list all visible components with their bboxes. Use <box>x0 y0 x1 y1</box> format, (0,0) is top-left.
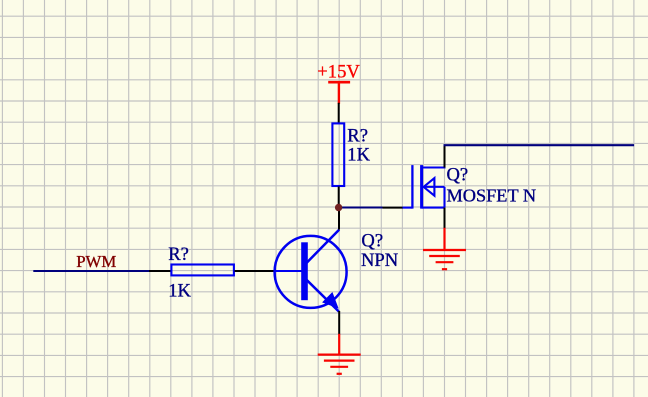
ground GND2 <box>423 228 466 269</box>
wire PWM input <box>33 270 149 272</box>
transistor Q1 body circle <box>275 236 347 308</box>
mosfet Q2 drain stub <box>422 166 446 168</box>
mosfet Q2 source stub <box>422 207 445 209</box>
mosfet Q2 bulk stub <box>423 186 445 188</box>
mosfet Q2 gate pin <box>383 207 404 209</box>
resistor R2 pin 1 <box>149 270 171 272</box>
mosfet Q2 channel bar <box>420 165 423 209</box>
svg-text:Q?: Q? <box>447 165 469 186</box>
resistor R2 body <box>171 265 234 276</box>
resistor R2 pin 2 <box>235 270 278 272</box>
power port +15V bar <box>328 81 350 84</box>
svg-text:MOSFET N: MOSFET N <box>447 185 537 205</box>
mosfet Q2 source pin <box>444 208 446 229</box>
svg-text:R?: R? <box>347 126 368 147</box>
resistor R1 pin 1 <box>338 103 340 123</box>
mosfet Q2 bulk arrow <box>424 178 435 196</box>
transistor Q1 collector line <box>305 230 340 265</box>
transistor Q1 base lead <box>275 270 302 272</box>
resistor R1 body <box>332 123 344 186</box>
ground GND1 <box>318 334 361 374</box>
mosfet Q2 drain pin <box>444 146 446 168</box>
transistor Q1 emitter arrow <box>323 293 338 308</box>
wire drain to right <box>444 144 635 146</box>
mosfet Q2 source link <box>443 187 445 208</box>
svg-text:1K: 1K <box>168 281 191 302</box>
mosfet Q2 gate lead <box>403 207 413 209</box>
wire junction to gate <box>339 206 383 208</box>
svg-text:NPN: NPN <box>361 250 398 271</box>
power port +15V stem <box>338 81 340 104</box>
transistor Q1 collector pin <box>338 207 340 230</box>
svg-text:PWM: PWM <box>76 252 116 271</box>
svg-text:1K: 1K <box>347 145 370 166</box>
resistor R1 pin 2 <box>338 187 340 208</box>
svg-text:+15V: +15V <box>317 61 360 82</box>
transistor Q1 emitter pin <box>338 311 340 335</box>
mosfet Q2 gate bar <box>411 165 413 209</box>
junction node A <box>335 204 342 211</box>
transistor Q1 base bar <box>301 242 308 300</box>
svg-text:Q?: Q? <box>361 231 383 252</box>
svg-text:R?: R? <box>168 244 189 265</box>
transistor Q1 emitter line <box>305 278 339 312</box>
